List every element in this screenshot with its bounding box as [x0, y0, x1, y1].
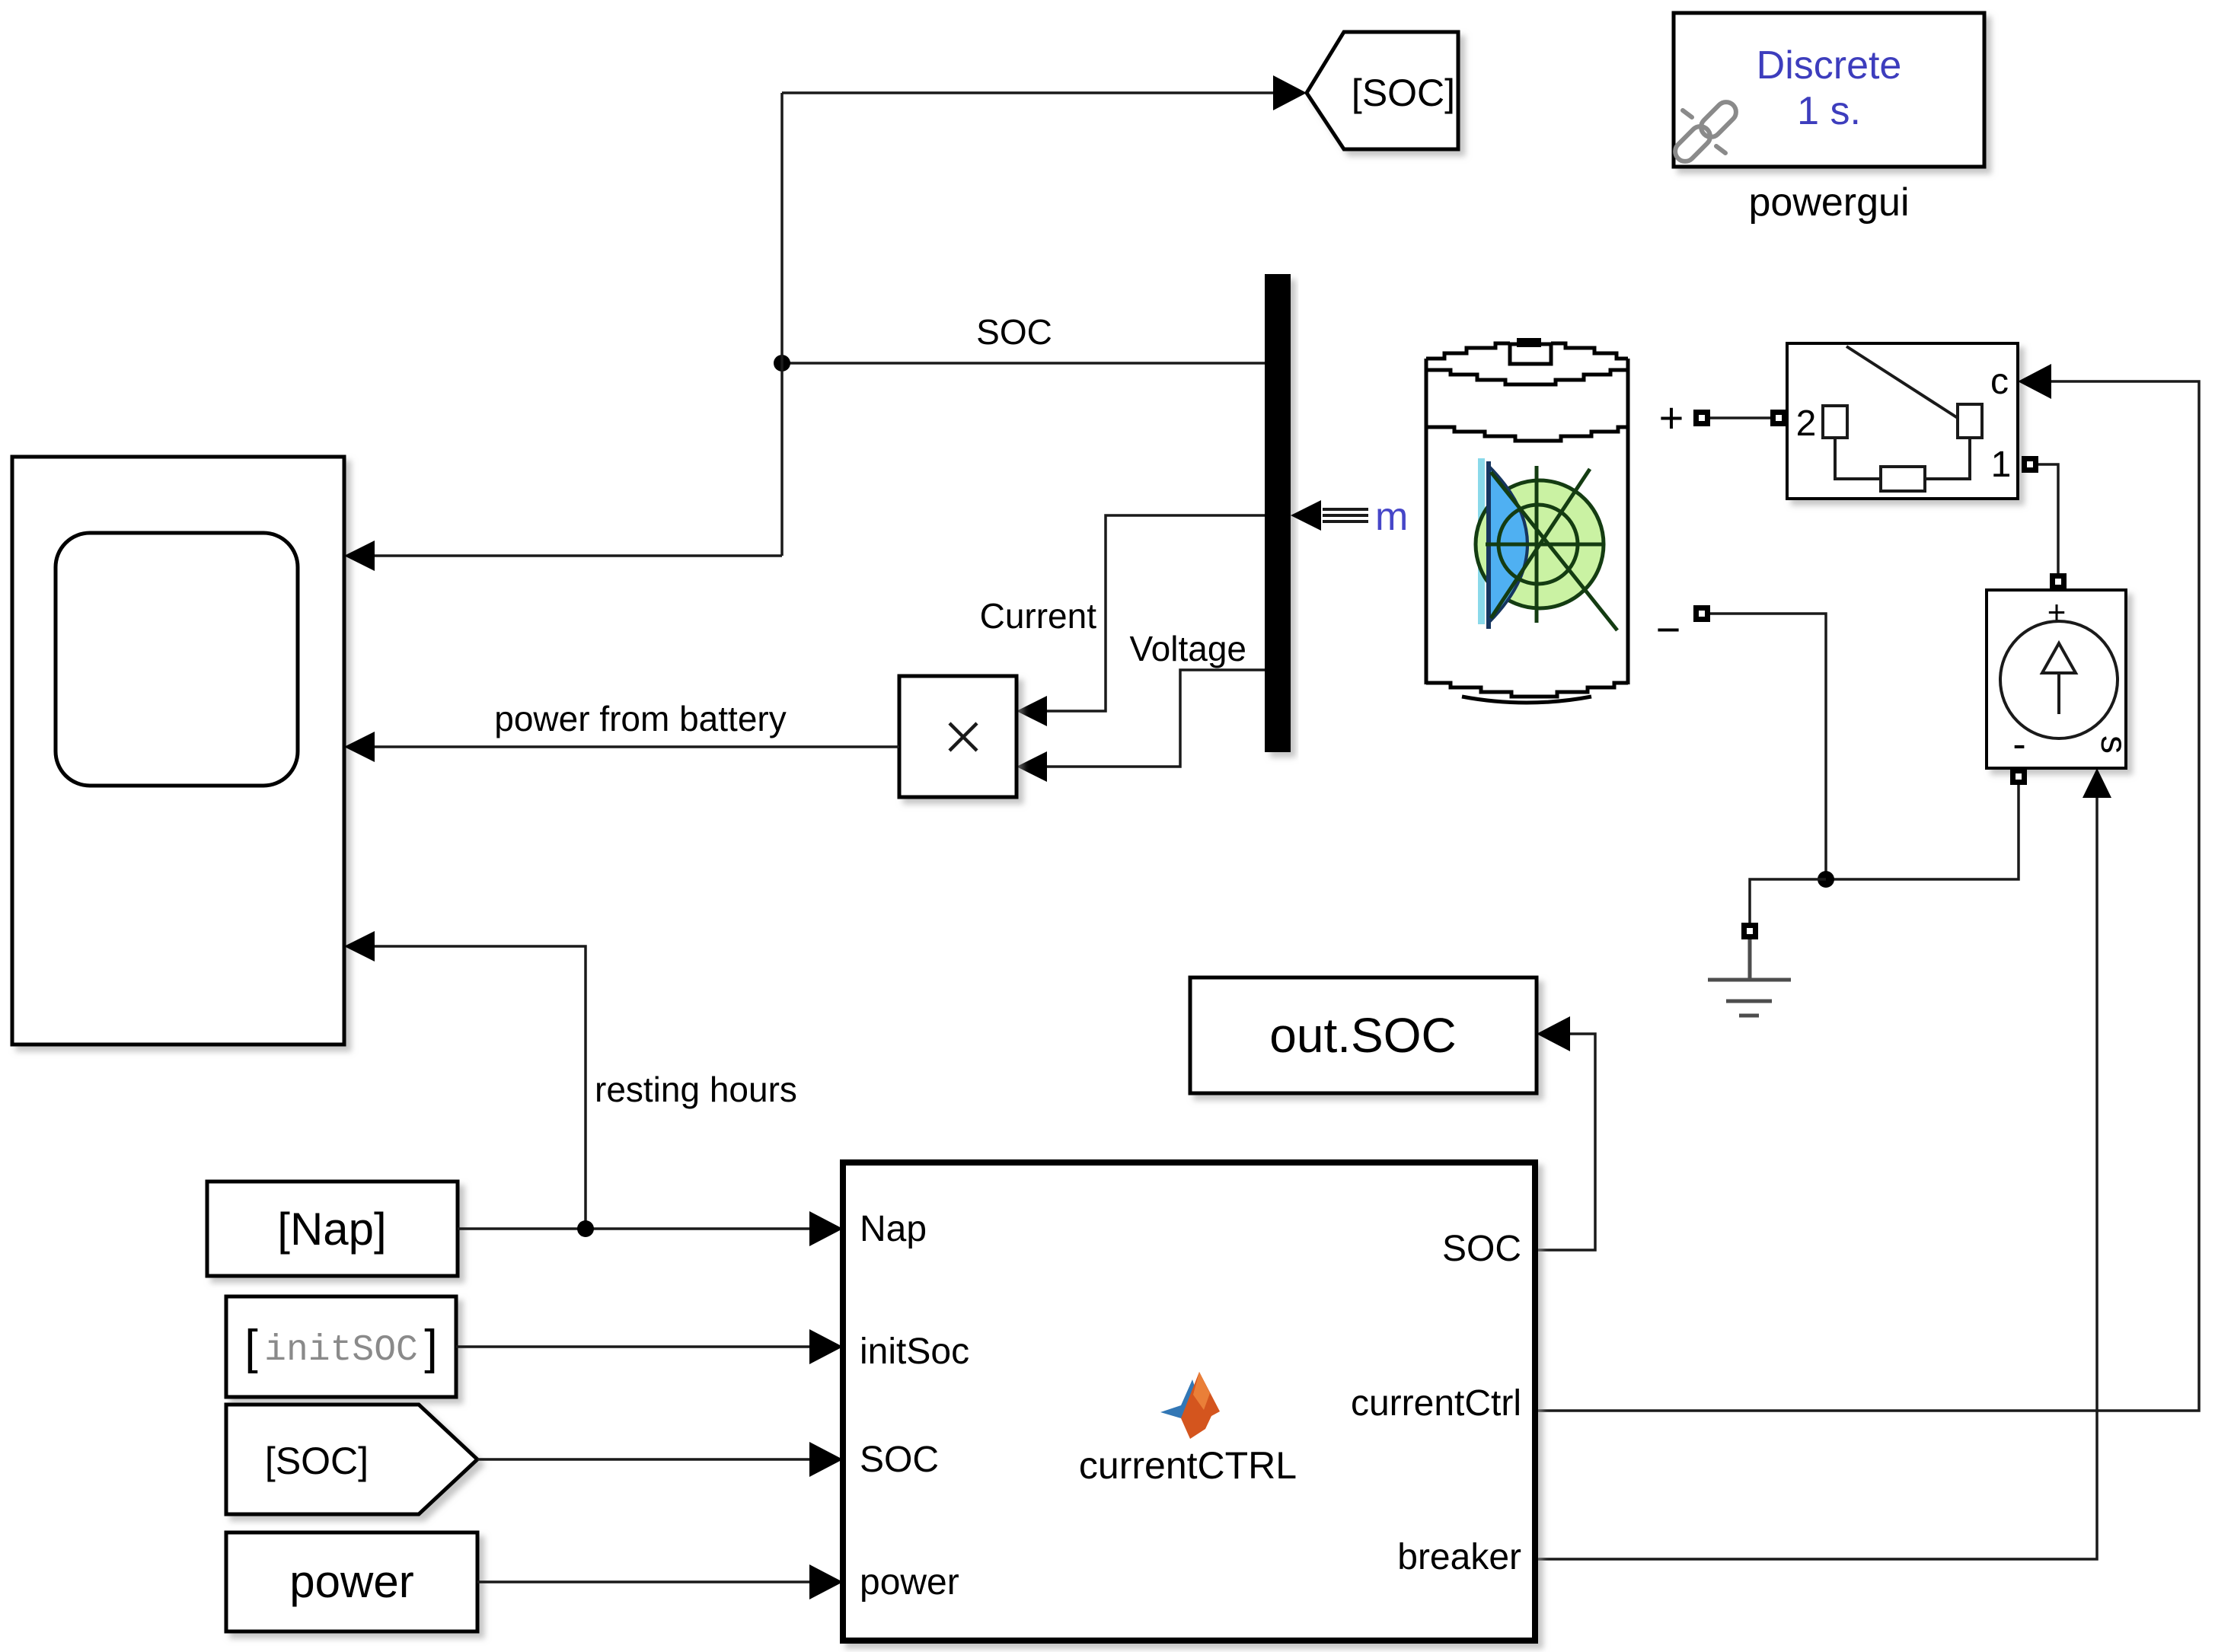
node SOC junction: [774, 355, 790, 372]
wire resting hours (Nap junction to scope port 3): [375, 946, 586, 1229]
svg-text:2: 2: [1796, 403, 1817, 444]
svg-text:initSoc: initSoc: [860, 1331, 969, 1372]
wire SOC vertical branch: [780, 93, 784, 556]
svg-text:[SOC]: [SOC]: [1352, 72, 1455, 114]
From block [Nap]: [207, 1182, 458, 1276]
svg-text:s: s: [2093, 735, 2134, 754]
inport block power: [226, 1532, 477, 1631]
scope block Scope: [12, 457, 344, 1044]
powergui block: [1674, 13, 1984, 167]
svg-text:[Nap]: [Nap]: [277, 1204, 386, 1255]
wire battery - to ground junction: [1710, 614, 1826, 879]
svg-text:Current: Current: [980, 596, 1097, 636]
svg-text:1: 1: [1991, 445, 2012, 485]
wire [SOC] to currentCTRL: [477, 1458, 809, 1461]
scope input port 1 arrowhead: [344, 541, 375, 571]
svg-text:powergui: powergui: [1748, 180, 1909, 225]
breaker input port square: [1770, 410, 1787, 426]
battery body: [1426, 343, 1628, 703]
To-Workspace block out.SOC: [1190, 977, 1537, 1093]
wire breaker 1 to current source +: [2038, 464, 2058, 573]
wire Voltage from bus to product: [1047, 670, 1265, 767]
scope input port 3 arrowhead: [344, 931, 375, 962]
svg-text:Voltage: Voltage: [1130, 629, 1246, 668]
wire breaker signal to s: [1535, 798, 2097, 1559]
current source + port square: [2050, 573, 2067, 590]
bus selector bar: [1265, 274, 1291, 752]
svg-text:+: +: [2047, 594, 2067, 630]
out.SOC input arrowhead: [1537, 1016, 1570, 1051]
svg-text:initSOC: initSOC: [264, 1330, 418, 1371]
svg-text:Discrete: Discrete: [1757, 43, 1902, 88]
MATLAB logo: [1160, 1372, 1220, 1439]
svg-text:resting hours: resting hours: [595, 1070, 797, 1109]
wire SOC bus output to junction: [782, 362, 1265, 365]
wire SOC to scope port 1: [375, 554, 782, 557]
ground symbol: [1708, 939, 1791, 1016]
battery logo: [1478, 458, 1485, 624]
svg-text:m: m: [1375, 495, 1408, 539]
wire initSOC to currentCTRL: [456, 1345, 809, 1348]
currentCTRL input arrowheads: [809, 1211, 843, 1246]
svg-text:SOC: SOC: [1442, 1229, 1521, 1269]
MATLAB Function block currentCTRL: [843, 1162, 1535, 1641]
constant block [initSOC]: [226, 1296, 456, 1397]
breaker internals: [1846, 346, 1958, 418]
wire currentCTRL SOC to out.SOC: [1535, 1034, 1595, 1250]
svg-text:+: +: [1659, 394, 1684, 442]
wire SOC to goto tag: [782, 91, 1275, 94]
current source - port square: [2010, 768, 2027, 785]
powergui broken-link icon: [1671, 98, 1741, 166]
wire junction to ground: [1750, 879, 1826, 923]
current source internals (circle, arrow, +, -, s): [2000, 621, 2118, 738]
svg-text:SOC: SOC: [860, 1440, 939, 1480]
svg-text:Nap: Nap: [860, 1209, 927, 1249]
current source s input arrowhead: [2083, 768, 2111, 798]
svg-text:[: [: [244, 1321, 258, 1374]
breaker output port 1 square: [2022, 456, 2038, 473]
battery terminal: [1510, 344, 1551, 364]
wire Nap to currentCTRL: [458, 1227, 809, 1230]
wire battery + to breaker: [1710, 416, 1770, 419]
node Nap junction: [577, 1220, 594, 1237]
product block (multiply): [899, 676, 1017, 797]
svg-text:c: c: [1990, 362, 2009, 402]
svg-text:power: power: [860, 1562, 959, 1603]
wire current source - to ground junction: [1826, 785, 2019, 879]
svg-text:power from battery: power from battery: [494, 699, 786, 738]
svg-text:out.SOC: out.SOC: [1269, 1008, 1456, 1063]
svg-text:SOC: SOC: [976, 312, 1052, 352]
wire power to currentCTRL: [477, 1580, 809, 1583]
svg-text:-: -: [2012, 722, 2025, 767]
wire Current from bus to product: [1047, 515, 1265, 711]
scope input port 2 arrowhead: [344, 732, 375, 762]
svg-text:currentCtrl: currentCtrl: [1351, 1383, 1521, 1424]
ground node junction: [1818, 871, 1834, 888]
wire currentCtrl to breaker c: [1535, 381, 2199, 1411]
svg-text:[SOC]: [SOC]: [265, 1440, 369, 1482]
breaker c input arrowhead: [2018, 364, 2051, 399]
breaker block: [1787, 343, 2018, 499]
ground port square: [1741, 923, 1758, 939]
svg-text:currentCTRL: currentCTRL: [1079, 1444, 1297, 1487]
From tag [SOC]: [226, 1405, 477, 1514]
controlled current source block: [1987, 590, 2126, 768]
goto tag [SOC]: [1307, 32, 1458, 149]
svg-text:−: −: [1656, 605, 1681, 653]
svg-text:]: ]: [424, 1321, 438, 1374]
bus input m arrowhead: [1291, 500, 1321, 531]
svg-text:1 s.: 1 s.: [1797, 89, 1861, 133]
wire product output to scope port 2: [375, 745, 899, 748]
svg-text:power: power: [289, 1556, 413, 1607]
svg-text:breaker: breaker: [1397, 1537, 1521, 1577]
